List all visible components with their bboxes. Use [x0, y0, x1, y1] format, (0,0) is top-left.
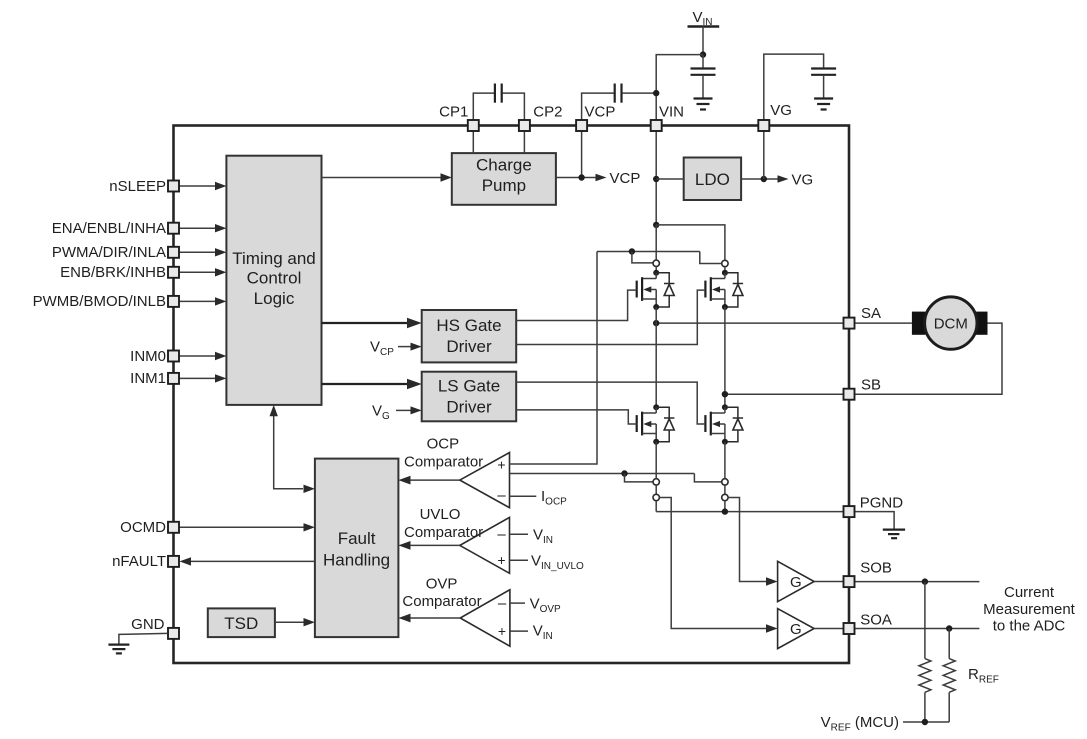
node QHB source — [722, 304, 728, 310]
capacitor VCP-VIN — [582, 84, 657, 126]
wire nFAULT output — [190, 560, 315, 562]
block Timing and Control Logic — [226, 156, 321, 405]
pin GND — [168, 628, 179, 639]
node SA junction — [653, 320, 659, 326]
wire INM0 input — [180, 355, 217, 357]
svg-text:Comparator: Comparator — [404, 524, 483, 541]
pin SOB — [844, 576, 855, 587]
wire LDO output VG — [741, 178, 778, 180]
wire INM1 input — [180, 377, 217, 379]
svg-text:Comparator: Comparator — [402, 593, 481, 610]
node VIN supply junction — [700, 51, 706, 57]
capacitor body diode QHA — [656, 273, 674, 307]
wire SOB external — [855, 581, 979, 583]
wire LS sense to QLB circle — [694, 474, 721, 482]
wire QLA source to sense circles — [655, 442, 657, 479]
svg-text:UVLO: UVLO — [420, 506, 461, 523]
transistor QHA high-side A — [637, 260, 660, 307]
pin PWMB/BMOD/INLB — [168, 296, 179, 307]
wire OCP output to Fault Handling — [410, 479, 460, 481]
svg-text:VCP: VCP — [610, 170, 641, 187]
transistor QLB low-side B — [705, 404, 728, 442]
svg-text:SB: SB — [861, 376, 881, 393]
node VREF junction — [922, 719, 928, 725]
pin OCMD — [168, 522, 179, 533]
wire UVLO output to Fault Handling — [410, 544, 460, 546]
label Current Measurement to the ADC — [983, 584, 1076, 635]
wire UVLO minus input — [510, 533, 529, 535]
svg-text:VG: VG — [792, 172, 814, 189]
svg-text:CP1: CP1 — [439, 104, 468, 121]
pin PWMA/DIR/INLA — [168, 247, 179, 258]
wire CP2 pin to Charge Pump — [523, 131, 525, 153]
svg-text:PWMA/DIR/INLA: PWMA/DIR/INLA — [52, 244, 166, 261]
wire leg B mid — [724, 307, 726, 407]
svg-text:Pump: Pump — [482, 176, 526, 195]
wire PWMB input — [180, 300, 217, 302]
pin ENA/ENBL/INHA — [168, 223, 179, 234]
pin PGND — [844, 506, 855, 517]
motor DCM — [912, 297, 988, 349]
arrowhead VCP output — [596, 174, 607, 182]
capacitor VG — [811, 69, 836, 99]
node SB junction — [722, 391, 728, 397]
capacitor body diode QLB — [725, 407, 743, 442]
VIN supply rail V_IN — [688, 27, 720, 55]
block Fault Handling — [315, 459, 399, 637]
svg-text:to the ADC: to the ADC — [993, 618, 1066, 635]
wire SPA sense to SOA amp — [659, 498, 766, 629]
wire leg A mid — [655, 307, 657, 407]
svg-text:+: + — [497, 457, 505, 473]
wire PWMA input — [180, 251, 217, 253]
svg-text:+: + — [497, 552, 505, 568]
node VIN to LDO junction — [653, 176, 659, 182]
arrowhead VG output — [778, 175, 789, 183]
svg-text:PWMB/BMOD/INLB: PWMB/BMOD/INLB — [33, 293, 166, 310]
wire TCL to HS Gate Driver bold — [322, 322, 408, 324]
node VIN bridge top junction — [653, 222, 659, 228]
svg-text:OCMD: OCMD — [120, 519, 166, 536]
node HS sense junction — [629, 248, 635, 254]
svg-text:G: G — [790, 621, 802, 638]
wire VG to LS Gate Driver — [396, 409, 412, 411]
op-amp OCP comparator — [460, 453, 510, 508]
wire SA to motor — [855, 322, 912, 324]
svg-text:OVP: OVP — [426, 576, 458, 593]
wire VG riser — [764, 54, 824, 125]
node SOB resistor junction — [922, 578, 928, 584]
pin nSLEEP — [168, 181, 179, 192]
svg-text:SOA: SOA — [860, 611, 892, 628]
svg-text:Fault: Fault — [338, 529, 376, 548]
wire bridge top rail — [656, 225, 725, 260]
svg-text:SOB: SOB — [860, 559, 892, 576]
wire VCP to HS Gate Driver — [398, 346, 412, 348]
capacitor body diode QLA — [656, 407, 674, 442]
svg-text:Handling: Handling — [323, 550, 390, 569]
capacitor body diode QHB — [725, 273, 743, 307]
op-amp OVP comparator — [460, 590, 510, 647]
pin nFAULT — [168, 556, 179, 567]
svg-text:TSD: TSD — [224, 614, 258, 633]
svg-text:nSLEEP: nSLEEP — [109, 178, 166, 195]
svg-text:CP2: CP2 — [533, 104, 562, 121]
wire HS sense to OCP plus — [510, 252, 598, 465]
op-amp UVLO comparator — [460, 517, 510, 573]
svg-text:ENA/ENBL/INHA: ENA/ENBL/INHA — [52, 220, 166, 237]
svg-text:INM1: INM1 — [130, 370, 166, 387]
resistor RREF A — [943, 629, 955, 723]
node PGND junction — [722, 508, 728, 514]
wire SOA amp output — [814, 628, 843, 630]
pin SOA — [844, 623, 855, 634]
wire HS sense to QHB pin circle — [700, 252, 722, 264]
pin SB — [844, 389, 855, 400]
ground PGND — [883, 530, 905, 539]
svg-text:VCP: VCP — [585, 104, 616, 121]
node QHA source — [653, 304, 659, 310]
svg-text:Comparator: Comparator — [404, 453, 483, 470]
capacitor VIN bulk — [691, 55, 716, 99]
wire VG pin stub — [763, 131, 765, 179]
svg-text:VG: VG — [770, 102, 792, 119]
svg-text:ENB/BRK/INHB: ENB/BRK/INHB — [60, 264, 166, 281]
svg-text:INM0: INM0 — [130, 348, 166, 365]
wire LS sense to QLA circle — [625, 474, 654, 482]
wire OVP output to Fault Handling — [410, 617, 460, 619]
svg-text:Timing and: Timing and — [232, 249, 315, 268]
wire VREF bottom — [903, 721, 949, 723]
wire SOB amp output — [814, 581, 843, 583]
pin INM1 — [168, 373, 179, 384]
svg-text:–: – — [497, 526, 506, 543]
wire VIN to LDO — [656, 178, 684, 180]
wire ENA input — [180, 227, 217, 229]
wire QLA gate to LS driver out2 — [516, 410, 637, 424]
resistor RREF B — [919, 582, 931, 722]
wire UVLO plus input — [510, 559, 529, 561]
block TSD — [208, 608, 275, 637]
pin SA — [844, 318, 855, 329]
pin ENB/BRK/INHB — [168, 267, 179, 278]
wire QHB gate to HS driver out2 — [516, 290, 705, 344]
pin VCP — [576, 120, 587, 131]
svg-text:Driver: Driver — [446, 398, 492, 417]
svg-text:Current: Current — [1004, 584, 1055, 601]
wire QHA gate to HS driver out1 — [516, 290, 637, 320]
svg-text:–: – — [497, 487, 506, 504]
wire OVP minus input — [510, 602, 525, 604]
svg-text:GND: GND — [131, 616, 165, 633]
node VCP output junction — [578, 174, 584, 180]
svg-text:LS Gate: LS Gate — [438, 376, 500, 395]
ground GND — [108, 645, 129, 654]
wire VCP pin stub — [581, 131, 583, 178]
wire HS sense to QHA pin circle — [632, 252, 653, 263]
wire GND pin to ground — [119, 633, 168, 644]
svg-text:+: + — [498, 623, 506, 639]
node VG output junction — [761, 176, 767, 182]
pin CP2 — [519, 120, 530, 131]
pin INM0 — [168, 351, 179, 362]
wire TCL to Fault Handling double arrow — [274, 414, 303, 489]
block Charge Pump — [452, 153, 556, 205]
op-amp SOB shunt amp G — [778, 561, 815, 601]
wire VIN pin down to bridge — [655, 131, 657, 225]
wire ENB input — [180, 271, 217, 273]
svg-text:–: – — [498, 595, 507, 612]
wire TSD to Fault Handling — [275, 621, 304, 623]
wire VIN rail to QHA drain — [655, 225, 657, 260]
wire LS source sense bus to OCP — [510, 473, 695, 475]
svg-text:SA: SA — [861, 305, 881, 322]
block LDO U2 — [684, 158, 741, 201]
pin VG — [758, 120, 769, 131]
svg-text:OCP: OCP — [427, 436, 460, 453]
transistor QHB high-side B — [705, 260, 728, 307]
wire Charge Pump output VCP — [556, 177, 596, 179]
svg-text:HS Gate: HS Gate — [436, 316, 501, 335]
node SOA resistor junction — [946, 625, 952, 631]
wire nSLEEP input — [180, 185, 217, 187]
svg-text:Logic: Logic — [254, 289, 295, 308]
block LS Gate Driver — [422, 372, 517, 422]
node QLB source — [722, 439, 728, 445]
wire motor to SB — [855, 323, 1002, 394]
wire VIN supply to VIN pin riser — [656, 55, 703, 126]
pin CP1 — [468, 120, 479, 131]
wire QLB source to sense circles — [724, 442, 726, 479]
svg-text:Charge: Charge — [476, 156, 532, 175]
ground VIN cap — [694, 99, 713, 110]
wire PGND rail — [656, 511, 843, 513]
transistor QLA low-side A — [637, 404, 660, 442]
wire PGND to ground — [855, 512, 894, 529]
svg-text:Driver: Driver — [446, 337, 492, 356]
wire HS drain sense bus — [597, 251, 700, 253]
node LS sense junction — [621, 470, 627, 476]
wire OVP plus input — [510, 630, 528, 632]
ground VG cap — [814, 99, 833, 110]
wire OCMD input — [180, 526, 305, 528]
wire OCP minus input IOCP — [510, 495, 537, 497]
svg-text:LDO: LDO — [695, 170, 730, 189]
node VCP cap at VIN riser — [653, 90, 659, 96]
svg-text:Measurement: Measurement — [983, 601, 1076, 618]
IC boundary box — [174, 126, 850, 664]
wire TCL to Charge Pump — [322, 177, 442, 179]
op-amp SOA shunt amp G — [778, 609, 815, 649]
node QLA source — [653, 439, 659, 445]
wire TCL to LS Gate Driver bold — [322, 383, 408, 385]
wire SOA external — [855, 628, 979, 630]
wire CP1 pin to Charge Pump — [472, 131, 474, 153]
svg-text:DCM: DCM — [934, 315, 968, 332]
svg-text:PGND: PGND — [860, 495, 904, 512]
block HS Gate Driver — [422, 310, 517, 362]
capacitor CP1-CP2 flying — [473, 84, 524, 126]
svg-text:nFAULT: nFAULT — [112, 553, 166, 570]
svg-text:Control: Control — [247, 269, 302, 288]
wire SB net — [725, 393, 844, 395]
wire SA net — [656, 322, 843, 324]
svg-text:G: G — [790, 574, 802, 591]
wire QLB gate to LS driver out1 — [516, 382, 705, 424]
wire SPB sense to SOB amp — [728, 498, 766, 582]
svg-text:VIN: VIN — [659, 104, 684, 121]
pin VIN — [651, 120, 662, 131]
